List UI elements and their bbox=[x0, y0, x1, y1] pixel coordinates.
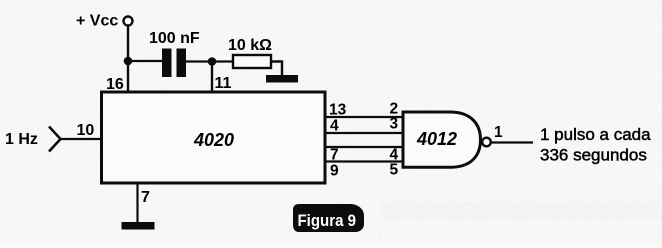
gate U2 4012 label bbox=[416, 129, 457, 149]
wire node B to pin 11 bbox=[211, 62, 213, 92]
wire node A to pin 16 bbox=[127, 61, 129, 91]
pin 2 label bbox=[390, 101, 399, 118]
wire pin 4 to pin 3 bbox=[326, 132, 404, 134]
svg-text:16: 16 bbox=[106, 76, 124, 93]
IC U1 4020 body bbox=[102, 92, 326, 183]
wire pin 9 to pin 5 bbox=[326, 160, 404, 162]
pin 5 label bbox=[390, 162, 399, 179]
svg-text:7: 7 bbox=[141, 189, 150, 206]
svg-text:4: 4 bbox=[330, 118, 339, 135]
svg-text:4020: 4020 bbox=[193, 130, 234, 150]
resistor R1 bbox=[233, 55, 271, 68]
node A junction bbox=[124, 57, 133, 66]
pin 16 label bbox=[106, 76, 124, 93]
capacitor C1 bbox=[162, 49, 186, 78]
output annotation line 2 bbox=[540, 146, 647, 165]
pin 4 label (4020) bbox=[330, 118, 339, 135]
svg-text:11: 11 bbox=[215, 75, 232, 92]
svg-text:1 pulso a cada: 1 pulso a cada bbox=[540, 125, 651, 144]
svg-text:Figura 9: Figura 9 bbox=[298, 211, 357, 230]
capacitor C1 value 100 nF bbox=[149, 30, 200, 47]
pin 1 label bbox=[494, 124, 503, 141]
pin 7 label bbox=[141, 189, 150, 206]
resistor R1 value 10 kohm bbox=[228, 37, 272, 54]
svg-text:100 nF: 100 nF bbox=[149, 30, 200, 47]
caption Figura 9 bbox=[293, 204, 364, 232]
wire pin 7 to ground bbox=[136, 184, 138, 223]
node B junction bbox=[208, 57, 217, 66]
power +Vcc terminal bbox=[124, 17, 133, 26]
ground for resistor R1 bbox=[266, 75, 298, 83]
pin 9 label bbox=[330, 163, 339, 180]
input source 1 Hz label bbox=[5, 131, 38, 148]
input chevron symbol bbox=[49, 127, 61, 152]
ground for pin 7 bbox=[122, 222, 155, 230]
wire node A to capacitor C1 bbox=[128, 60, 162, 62]
IC U1 4020 label bbox=[193, 130, 234, 150]
wire capacitor C1 to node B bbox=[186, 60, 212, 62]
wire resistor R1 to ground bbox=[271, 62, 282, 76]
gate U2 4012 body bbox=[403, 112, 481, 167]
pin 11 label bbox=[215, 75, 232, 92]
svg-text:5: 5 bbox=[390, 162, 399, 179]
wire pin 13 to pin 2 bbox=[326, 116, 404, 118]
svg-text:+ Vcc: + Vcc bbox=[76, 13, 118, 30]
pin 10 label bbox=[77, 122, 95, 139]
wire Vcc to node A bbox=[127, 26, 129, 62]
svg-text:3: 3 bbox=[390, 116, 399, 133]
pin 4 label (4012) bbox=[390, 147, 399, 164]
output annotation line 1 bbox=[540, 125, 651, 144]
pin 13 label bbox=[329, 102, 347, 119]
svg-text:1 Hz: 1 Hz bbox=[5, 131, 38, 148]
svg-text:10 kΩ: 10 kΩ bbox=[228, 37, 272, 54]
power +Vcc label bbox=[76, 13, 118, 30]
pin 3 label bbox=[390, 116, 399, 133]
wire input to pin 10 bbox=[61, 138, 102, 140]
svg-text:1: 1 bbox=[494, 124, 503, 141]
wire node B to resistor R1 bbox=[212, 60, 233, 62]
svg-text:13: 13 bbox=[329, 102, 347, 119]
pin 7 label (4020 output) bbox=[330, 147, 339, 164]
svg-text:336 segundos: 336 segundos bbox=[540, 146, 647, 165]
wire output pin 1 bbox=[491, 141, 533, 143]
gate U2 output bubble bbox=[482, 138, 491, 147]
svg-text:4012: 4012 bbox=[416, 129, 457, 149]
wire pin 7 to pin 4 bbox=[326, 146, 404, 148]
svg-text:10: 10 bbox=[77, 122, 95, 139]
svg-text:9: 9 bbox=[330, 163, 339, 180]
